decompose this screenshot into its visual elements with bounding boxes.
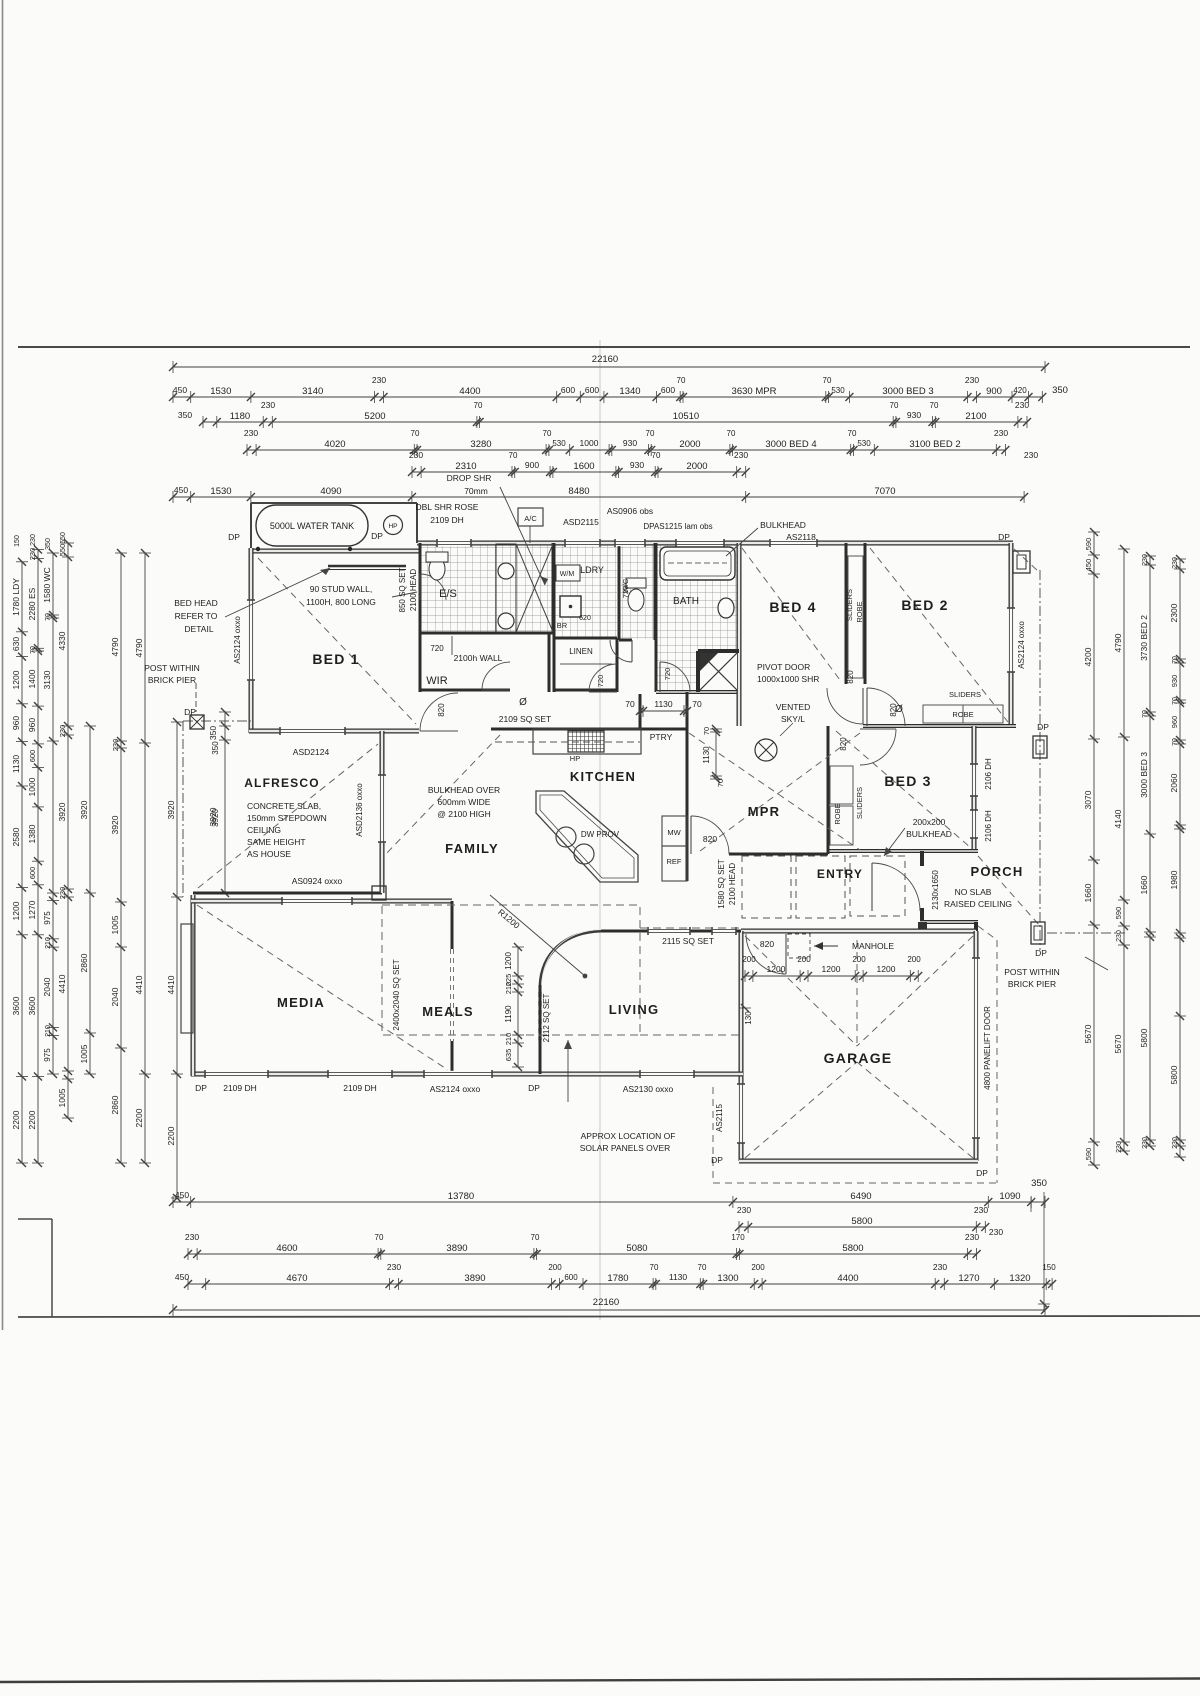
door: mpr (820) bbox=[691, 816, 729, 854]
svg-text:230: 230 bbox=[1024, 450, 1038, 460]
door: WC bbox=[610, 640, 632, 662]
svg-text:1530: 1530 bbox=[210, 386, 231, 397]
svg-text:1980: 1980 bbox=[1169, 870, 1179, 889]
svg-text:70: 70 bbox=[1172, 697, 1179, 705]
window: bath DPAS1215 (top wall) bbox=[676, 540, 724, 546]
wall: WC right bbox=[654, 543, 657, 640]
wall: media/meals divider lower bbox=[451, 1041, 454, 1074]
bottom border line bbox=[18, 1316, 1200, 1317]
5000L water tank oval bbox=[256, 505, 368, 546]
leader: 200x200 bulkhead bbox=[884, 828, 905, 856]
fixture: bath vanity basin bbox=[718, 598, 734, 618]
wall: laundry/linen left bbox=[553, 543, 556, 692]
svg-text:210: 210 bbox=[45, 937, 52, 949]
wall: bed4 left bbox=[737, 543, 742, 726]
svg-text:1780 LDY: 1780 LDY bbox=[11, 578, 21, 616]
wall: pantry stub bbox=[639, 694, 642, 729]
door: bath (720) bbox=[660, 662, 690, 692]
svg-text:975: 975 bbox=[43, 1048, 52, 1062]
svg-text:3000 BED 4: 3000 BED 4 bbox=[765, 439, 816, 450]
roof dashed: garage vertical bbox=[856, 940, 858, 1046]
svg-text:3890: 3890 bbox=[464, 1273, 485, 1284]
svg-text:1200: 1200 bbox=[822, 964, 841, 974]
curved wall R1200 kitchen/living bbox=[540, 931, 601, 987]
dimension chain: bottom overall 22160 bbox=[169, 1297, 1049, 1316]
hatched floor: WC bbox=[620, 544, 655, 639]
dash-dot to post label bbox=[1047, 932, 1125, 934]
window: bed2 right AS2124 bbox=[1008, 608, 1014, 672]
svg-text:7070: 7070 bbox=[874, 486, 895, 497]
fixture: ensuite toilet bbox=[429, 558, 445, 580]
svg-text:70: 70 bbox=[716, 779, 725, 787]
svg-text:820: 820 bbox=[703, 834, 717, 844]
svg-text:720: 720 bbox=[663, 668, 672, 681]
hatched floor: bath bbox=[657, 544, 738, 691]
svg-text:70mm: 70mm bbox=[464, 486, 488, 496]
svg-text:230: 230 bbox=[1015, 400, 1029, 410]
svg-text:1180: 1180 bbox=[230, 411, 250, 422]
post-within-brick-pier leader (left) bbox=[195, 683, 197, 712]
svg-text:1130: 1130 bbox=[702, 746, 711, 764]
scan fold line bbox=[599, 340, 601, 1320]
svg-text:230: 230 bbox=[58, 887, 67, 900]
svg-text:5800: 5800 bbox=[842, 1243, 863, 1254]
svg-text:230: 230 bbox=[372, 375, 386, 385]
roof dashed: garage TL bbox=[745, 936, 857, 1046]
svg-text:LINEN: LINEN bbox=[569, 647, 593, 656]
svg-text:DP: DP bbox=[976, 1168, 988, 1178]
svg-text:BED 2: BED 2 bbox=[901, 597, 948, 613]
svg-text:BULKHEAD OVER: BULKHEAD OVER bbox=[428, 785, 500, 795]
svg-text:960: 960 bbox=[11, 716, 21, 730]
svg-text:DP: DP bbox=[371, 531, 383, 541]
dimension chain: left col 6 bbox=[110, 549, 127, 1167]
svg-text:4090: 4090 bbox=[320, 486, 341, 497]
svg-text:BULKHEAD: BULKHEAD bbox=[906, 829, 952, 839]
wall: porch door stub bottom bbox=[920, 908, 924, 924]
dimension chain: top row 3 bbox=[178, 400, 1031, 428]
svg-text:4020: 4020 bbox=[324, 439, 345, 450]
svg-text:22160: 22160 bbox=[593, 1297, 619, 1308]
svg-text:MW: MW bbox=[667, 828, 681, 837]
svg-text:600: 600 bbox=[564, 1273, 578, 1282]
svg-text:2300: 2300 bbox=[1169, 603, 1179, 622]
opening 2112 SQ SET dashes bbox=[538, 992, 540, 1040]
svg-text:REF: REF bbox=[667, 857, 682, 866]
svg-text:70: 70 bbox=[375, 1233, 384, 1242]
svg-text:4800 PANELIFT DOOR: 4800 PANELIFT DOOR bbox=[983, 1006, 992, 1090]
svg-text:BRICK PIER: BRICK PIER bbox=[148, 675, 196, 685]
svg-text:4410: 4410 bbox=[166, 975, 176, 994]
entry dashed box 2 bbox=[796, 856, 845, 918]
svg-text:4670: 4670 bbox=[286, 1273, 307, 1284]
wall: linen bottom bbox=[554, 689, 617, 692]
wall: meals/living south stub bbox=[539, 985, 542, 1074]
svg-text:150: 150 bbox=[1042, 1263, 1056, 1272]
svg-text:3070: 3070 bbox=[1083, 790, 1093, 809]
svg-text:AS0906 obs: AS0906 obs bbox=[607, 506, 653, 516]
svg-text:PORCH: PORCH bbox=[971, 864, 1024, 879]
wall: bed3 bottom bbox=[828, 849, 978, 853]
svg-text:450: 450 bbox=[173, 385, 187, 395]
kitchen cooktop HP bbox=[568, 731, 604, 752]
window: bottom 2109DH east bbox=[328, 1071, 392, 1077]
svg-text:ROBE: ROBE bbox=[833, 803, 842, 824]
svg-text:@ 2100 HIGH: @ 2100 HIGH bbox=[437, 809, 491, 819]
dimension chain: left col 5 bbox=[79, 722, 96, 1078]
dimension chain: hall width bbox=[625, 699, 702, 717]
window: living north 2115 bbox=[648, 928, 690, 934]
svg-text:4790: 4790 bbox=[110, 637, 120, 656]
dimension chain: right col 4 bbox=[1169, 555, 1186, 1161]
svg-text:590: 590 bbox=[1084, 1148, 1093, 1161]
svg-text:NO SLAB: NO SLAB bbox=[955, 887, 992, 897]
svg-text:LIVING: LIVING bbox=[609, 1002, 660, 1017]
svg-text:130: 130 bbox=[744, 1011, 753, 1025]
svg-text:70: 70 bbox=[411, 429, 420, 438]
svg-text:DP: DP bbox=[1037, 722, 1049, 732]
svg-text:BR: BR bbox=[557, 621, 568, 630]
svg-text:930: 930 bbox=[907, 410, 921, 420]
svg-text:DP: DP bbox=[184, 707, 196, 717]
leader: drop shr bbox=[500, 487, 545, 585]
svg-text:3920: 3920 bbox=[166, 800, 176, 819]
wall: garage right bbox=[974, 931, 979, 1161]
svg-text:70: 70 bbox=[531, 1233, 540, 1242]
svg-text:1005: 1005 bbox=[110, 915, 120, 934]
svg-text:ASD2124: ASD2124 bbox=[293, 747, 330, 757]
svg-text:3280: 3280 bbox=[470, 439, 491, 450]
wall: garage top bbox=[741, 929, 976, 934]
svg-text:3920: 3920 bbox=[79, 800, 89, 819]
svg-text:4400: 4400 bbox=[837, 1273, 858, 1284]
svg-text:3920: 3920 bbox=[57, 802, 67, 821]
svg-text:2000: 2000 bbox=[686, 461, 707, 472]
window: AS2118 (bed4 top wall) bbox=[770, 540, 817, 546]
svg-text:4790: 4790 bbox=[1113, 633, 1123, 652]
ceiling dashed: mpr X a bbox=[689, 733, 860, 850]
svg-text:WIR: WIR bbox=[426, 675, 447, 687]
svg-text:2109 DH: 2109 DH bbox=[223, 1083, 257, 1093]
svg-text:2280 ES: 2280 ES bbox=[27, 587, 37, 620]
wall: bed2/bed3 divider bbox=[863, 724, 1016, 728]
dimension chain: top row 5 bbox=[408, 450, 750, 478]
svg-text:2106 DH: 2106 DH bbox=[984, 810, 993, 842]
svg-text:SLIDERS: SLIDERS bbox=[949, 690, 981, 699]
svg-text:1580 SQ SET: 1580 SQ SET bbox=[717, 859, 726, 908]
svg-text:230: 230 bbox=[1142, 1137, 1149, 1149]
wall: media top bbox=[191, 899, 452, 904]
window: bed1 left AS2124 bbox=[248, 600, 254, 680]
svg-text:4140: 4140 bbox=[1113, 809, 1123, 828]
svg-text:70: 70 bbox=[1172, 656, 1179, 664]
window: living east AS2115 (garage wall) bbox=[738, 1084, 744, 1143]
cased opening 2400x2040 between media and meals bbox=[450, 949, 452, 1041]
door: WIR (720) bbox=[482, 662, 510, 690]
svg-text:200: 200 bbox=[742, 955, 756, 964]
svg-text:1270: 1270 bbox=[27, 900, 37, 919]
door: bed2 (820) bbox=[867, 688, 905, 726]
leader: 90 stud wall bbox=[392, 592, 417, 597]
svg-text:LDRY: LDRY bbox=[580, 565, 604, 575]
dashed: top-right eave diagonal bbox=[1014, 549, 1038, 571]
hatched floor: laundry bbox=[554, 544, 617, 637]
svg-text:350: 350 bbox=[211, 741, 220, 755]
svg-text:2200: 2200 bbox=[134, 1108, 144, 1127]
wall: WC left bbox=[618, 543, 621, 640]
svg-text:350: 350 bbox=[208, 726, 218, 740]
A/C unit bbox=[518, 508, 543, 526]
svg-text:4400: 4400 bbox=[459, 386, 480, 397]
svg-text:1090: 1090 bbox=[999, 1191, 1020, 1202]
svg-text:SLIDERS: SLIDERS bbox=[845, 589, 854, 621]
ceiling dashed: family diagonal bbox=[385, 735, 500, 855]
svg-text:ROBE: ROBE bbox=[855, 601, 864, 622]
svg-text:ALFRESCO: ALFRESCO bbox=[244, 776, 320, 790]
ceiling dashed: bed1 diagonal bbox=[258, 558, 416, 724]
dimension chain: inner left chain a bbox=[166, 718, 183, 1202]
svg-text:DP: DP bbox=[195, 1083, 207, 1093]
hatched floor: shower bbox=[516, 544, 553, 633]
svg-text:600: 600 bbox=[661, 385, 675, 395]
svg-text:2040: 2040 bbox=[110, 987, 120, 1006]
door: entry front (porch) bbox=[872, 863, 920, 911]
door: bed1 (820) bbox=[420, 693, 458, 731]
svg-text:3000 BED 3: 3000 BED 3 bbox=[1139, 752, 1149, 798]
svg-text:W/M: W/M bbox=[560, 571, 575, 578]
svg-text:5800: 5800 bbox=[851, 1216, 872, 1227]
window: bed3 right 2106DH upper bbox=[971, 764, 977, 796]
wall: living north bbox=[601, 930, 741, 933]
svg-text:820: 820 bbox=[839, 737, 848, 751]
svg-text:CONCRETE SLAB,: CONCRETE SLAB, bbox=[247, 801, 321, 811]
manhole dashed box + arrow bbox=[788, 934, 810, 958]
svg-text:ASD2115: ASD2115 bbox=[563, 517, 599, 527]
svg-text:DW PROV: DW PROV bbox=[581, 830, 620, 839]
svg-text:1340: 1340 bbox=[619, 386, 640, 397]
svg-text:1320: 1320 bbox=[1009, 1273, 1030, 1284]
svg-text:70: 70 bbox=[930, 401, 939, 410]
fixture: bath shower 1000x1000 pivot bbox=[700, 653, 737, 690]
window: laundry ASD2115 (top wall) bbox=[565, 540, 600, 546]
svg-text:230: 230 bbox=[974, 1205, 988, 1215]
leader: 2100h wall bbox=[451, 636, 453, 655]
svg-text:930: 930 bbox=[623, 438, 637, 448]
svg-text:2109 SQ SET: 2109 SQ SET bbox=[499, 714, 551, 724]
vented sky/l symbol bbox=[755, 739, 777, 761]
svg-text:230: 230 bbox=[933, 1262, 947, 1272]
ceiling dashed: bed3 diagonal bbox=[836, 731, 971, 848]
boundary dash-dot: porch east bbox=[1039, 570, 1041, 950]
svg-text:420: 420 bbox=[1013, 386, 1027, 395]
dimension chain: bottom row 4 bbox=[175, 1262, 1056, 1290]
kitchen bench bbox=[533, 729, 641, 754]
svg-text:600mm WIDE: 600mm WIDE bbox=[438, 797, 491, 807]
svg-text:3000 BED 3: 3000 BED 3 bbox=[882, 386, 933, 397]
svg-text:820: 820 bbox=[846, 670, 855, 684]
window: family west ASD2136 bbox=[379, 775, 385, 842]
svg-text:230: 230 bbox=[737, 1205, 751, 1215]
dimension chain: mpr vert bbox=[702, 725, 725, 787]
svg-text:70: 70 bbox=[509, 451, 518, 460]
svg-text:2060: 2060 bbox=[1169, 773, 1179, 792]
window: bottom AS2124 bbox=[424, 1071, 492, 1077]
linen shelf bbox=[560, 663, 612, 665]
window: ensuite shower 2109DH (top wall) bbox=[437, 540, 471, 546]
kitchen overhead dashed bbox=[495, 741, 640, 743]
svg-text:450: 450 bbox=[175, 1272, 189, 1282]
ceiling dashed: bed4 diagonal bbox=[742, 548, 840, 680]
svg-text:2109 DH: 2109 DH bbox=[430, 515, 464, 525]
wall: family west (alfresco east) bbox=[380, 731, 385, 893]
wall: linen right / hall bbox=[616, 638, 619, 692]
svg-text:POST WITHIN: POST WITHIN bbox=[1004, 967, 1060, 977]
svg-text:1130: 1130 bbox=[654, 699, 673, 709]
svg-text:960: 960 bbox=[1170, 716, 1179, 729]
dimension chain: right col 2 bbox=[1113, 545, 1130, 1155]
svg-text:DP: DP bbox=[528, 1083, 540, 1093]
kitchen MW box bbox=[662, 816, 687, 846]
wall: garage bottom bbox=[739, 1159, 978, 1164]
svg-text:150: 150 bbox=[14, 535, 21, 547]
svg-text:350: 350 bbox=[178, 410, 192, 420]
svg-text:DP: DP bbox=[711, 1155, 723, 1165]
svg-text:DP: DP bbox=[998, 532, 1010, 542]
svg-text:600: 600 bbox=[28, 750, 37, 763]
svg-text:1100H, 800 LONG: 1100H, 800 LONG bbox=[306, 597, 376, 607]
svg-text:2100: 2100 bbox=[965, 411, 986, 422]
svg-text:MEALS: MEALS bbox=[422, 1004, 474, 1019]
svg-text:AS0924 oxxo: AS0924 oxxo bbox=[292, 876, 343, 886]
window: bottom AS2130 bbox=[640, 1071, 694, 1077]
svg-text:2860: 2860 bbox=[79, 953, 89, 972]
dimension chain: right col 3 bbox=[1139, 552, 1156, 1150]
svg-text:RAISED CEILING: RAISED CEILING bbox=[944, 899, 1012, 909]
svg-text:5800: 5800 bbox=[1139, 1028, 1149, 1047]
wall: shower right bbox=[552, 543, 555, 633]
svg-text:900: 900 bbox=[986, 386, 1002, 397]
svg-text:230: 230 bbox=[185, 1232, 199, 1242]
svg-text:620: 620 bbox=[579, 615, 591, 622]
kitchen REF box bbox=[662, 846, 687, 881]
svg-text:200: 200 bbox=[907, 955, 921, 964]
DP dots at tank bbox=[256, 547, 260, 551]
svg-text:70: 70 bbox=[625, 699, 635, 709]
svg-text:70: 70 bbox=[890, 401, 899, 410]
svg-text:550: 550 bbox=[58, 544, 67, 557]
svg-text:90 STUD WALL,: 90 STUD WALL, bbox=[310, 584, 373, 594]
svg-text:210: 210 bbox=[504, 982, 513, 995]
svg-text:820: 820 bbox=[889, 703, 898, 717]
wall: house bottom (media/meals/living) bbox=[191, 1072, 743, 1077]
svg-text:4410: 4410 bbox=[134, 975, 144, 994]
svg-text:2580: 2580 bbox=[11, 827, 21, 846]
svg-text:MANHOLE: MANHOLE bbox=[852, 941, 894, 951]
wall: bed1 top bbox=[249, 549, 419, 554]
ceiling dashed: bed2 diagonal bbox=[870, 548, 1008, 722]
svg-text:E/S: E/S bbox=[439, 588, 457, 600]
dimension chain: top row 4 bbox=[243, 428, 1038, 460]
svg-text:4600: 4600 bbox=[276, 1243, 297, 1254]
wall: bed4/bed2 robe divider west bbox=[845, 543, 848, 684]
svg-text:2109 DH: 2109 DH bbox=[343, 1083, 377, 1093]
svg-text:AS2124 oxxo: AS2124 oxxo bbox=[1017, 621, 1026, 669]
svg-text:630: 630 bbox=[11, 637, 21, 651]
svg-text:1000x1000 SHR: 1000x1000 SHR bbox=[757, 674, 819, 684]
svg-text:4790: 4790 bbox=[134, 638, 144, 657]
svg-text:900: 900 bbox=[525, 460, 539, 470]
svg-text:230: 230 bbox=[261, 400, 275, 410]
wall: garage left bbox=[739, 931, 744, 1161]
svg-text:530: 530 bbox=[831, 386, 845, 395]
window: bed3 right 2106DH lower bbox=[971, 810, 977, 838]
wall: media left bbox=[191, 895, 196, 1076]
wall: media/meals divider upper bbox=[451, 901, 454, 949]
svg-text:2200: 2200 bbox=[27, 1110, 37, 1129]
svg-text:KITCHEN: KITCHEN bbox=[570, 769, 636, 784]
svg-text:SLIDERS: SLIDERS bbox=[855, 787, 864, 819]
svg-text:230: 230 bbox=[30, 534, 37, 546]
wall: porch door stub top bbox=[920, 851, 924, 866]
svg-text:1005: 1005 bbox=[57, 1088, 67, 1107]
svg-text:960: 960 bbox=[27, 718, 37, 732]
svg-text:2115 SQ SET: 2115 SQ SET bbox=[662, 936, 714, 946]
svg-text:SOLAR PANELS OVER: SOLAR PANELS OVER bbox=[580, 1143, 671, 1153]
dimension chain: left col 2 bbox=[27, 546, 44, 1168]
svg-text:1200: 1200 bbox=[504, 952, 513, 970]
svg-text:600: 600 bbox=[561, 385, 575, 395]
svg-text:SKY/L: SKY/L bbox=[781, 714, 805, 724]
wall: wet areas / bed4 / bed2 top bbox=[417, 541, 1013, 546]
svg-text:POST WITHIN: POST WITHIN bbox=[144, 663, 200, 673]
svg-text:3890: 3890 bbox=[446, 1243, 467, 1254]
leader: bed head detail bbox=[225, 568, 330, 617]
svg-text:820: 820 bbox=[760, 939, 774, 949]
svg-text:230: 230 bbox=[1172, 557, 1179, 569]
top border line bbox=[18, 346, 1190, 348]
svg-text:REFER TO: REFER TO bbox=[175, 611, 218, 621]
svg-text:1380: 1380 bbox=[27, 824, 37, 843]
dimension chain: top row 6 bbox=[169, 485, 1028, 503]
svg-text:2130x1650: 2130x1650 bbox=[931, 870, 940, 910]
hatched floor: ensuite E/S bbox=[421, 544, 516, 633]
robe cabinet bed2 south bbox=[923, 705, 1003, 723]
bottom right extension lines bbox=[1030, 1197, 1032, 1212]
svg-text:230: 230 bbox=[1172, 1137, 1179, 1149]
svg-text:1300: 1300 bbox=[717, 1273, 738, 1284]
roof dashed: garage TR bbox=[857, 936, 973, 1046]
roof dashed: garage BR bbox=[857, 1062, 973, 1158]
ceiling dashed: mpr X b bbox=[700, 733, 860, 851]
roof dashed: garage BL bbox=[745, 1062, 857, 1158]
svg-text:2112 SQ SET: 2112 SQ SET bbox=[542, 994, 551, 1043]
svg-text:AS2118: AS2118 bbox=[786, 532, 816, 542]
ceiling dashed: alfresco diagonal bbox=[198, 744, 378, 888]
svg-text:820: 820 bbox=[437, 703, 446, 717]
entry dashed box 3 bbox=[850, 856, 905, 916]
svg-text:1130: 1130 bbox=[11, 755, 21, 774]
svg-text:230: 230 bbox=[409, 450, 423, 460]
HP circle bbox=[384, 516, 403, 535]
svg-text:230: 230 bbox=[965, 1232, 979, 1242]
svg-text:2100 HEAD: 2100 HEAD bbox=[728, 863, 737, 905]
leader: bulkhead (bath) bbox=[726, 528, 758, 556]
svg-text:4330: 4330 bbox=[57, 631, 67, 650]
window: bed1 bottom ASD2124 bbox=[280, 728, 345, 734]
svg-text:230: 230 bbox=[58, 725, 67, 738]
dashed: meals/living ceiling rect bbox=[382, 905, 640, 1035]
svg-text:70: 70 bbox=[692, 699, 702, 709]
